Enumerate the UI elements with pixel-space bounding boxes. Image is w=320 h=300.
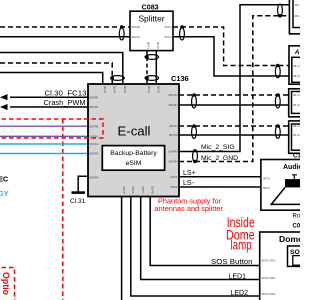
svg-text:08.P8: 08.P8 [150,187,154,195]
svg-text:08.L1: 08.L1 [293,64,300,68]
purple wire 2 [0,135,88,137]
svg-text:08.F4J: 08.F4J [169,124,178,128]
E-call right pin labels [168,93,178,189]
svg-text:Cl.30_FC13: Cl.30_FC13 [45,88,87,97]
twisted-pair symbol at antenna box1 [275,64,280,78]
wire LED1 [141,197,260,281]
svg-text:08.F01: 08.F01 [132,35,141,39]
wire pair 3 solid to box3 [179,134,291,136]
svg-text:C083: C083 [142,3,159,12]
twisted-pair symbol mic pair left [193,150,198,164]
svg-text:lamp: lamp [230,238,251,253]
red note phantom supply [154,199,223,213]
svg-text:08.F4M: 08.F4M [168,150,178,154]
red dashed vertical optional divider [62,119,64,300]
svg-text:08.F4C: 08.F4C [90,142,99,146]
svg-text:08.F2: 08.F2 [157,86,161,93]
E-call left pin labels [90,95,99,179]
antenna box1 [289,46,311,84]
svg-text:08.F4: 08.F4 [165,35,172,39]
wire LS- [179,180,261,187]
wire Mic_2_SIG [179,5,291,152]
wire solid splitter to antenna box1 [173,37,291,76]
svg-text:Splitter: Splitter [138,14,164,24]
svg-text:08.F2: 08.F2 [156,42,160,49]
wire Crash_PWM with arrow [0,98,88,110]
svg-text:Crash_PWM: Crash_PWM [44,98,86,107]
E-call top pin labels [103,86,161,93]
svg-text:08.F4E: 08.F4E [90,95,99,99]
svg-text:C136: C136 [171,74,189,83]
svg-text:08.F4N: 08.F4N [90,176,99,180]
twisted-pair symbol above E-call right pair [145,76,159,81]
wire pair 2 dashed to box2 [179,94,291,96]
svg-text:08.F4K: 08.F4K [169,133,178,137]
wire dashed splitter to antenna box1 [173,27,291,66]
svg-text:Dome: Dome [279,234,300,244]
svg-text:Mic_2_GND: Mic_2_GND [201,155,238,162]
svg-text:08.F4N: 08.F4N [169,160,178,164]
svg-text:08.F4G: 08.F4G [169,93,178,97]
svg-text:antennas and splitter: antennas and splitter [154,206,223,213]
svg-text:Audio: Audio [283,164,300,171]
red dashed optional box around purple pins [0,119,103,138]
wire solid to E-call top pin [0,53,123,85]
svg-text:08.P7: 08.P7 [141,187,145,195]
svg-text:08.F3: 08.F3 [103,86,107,93]
Backup-Battery eSIM [102,146,164,171]
red dashed optional box bottom left [0,268,15,300]
svg-text:eSIM: eSIM [126,160,142,167]
twisted-pair symbol pair3 right [275,124,280,138]
svg-text:C0: C0 [293,224,301,230]
cyan wire 1 [0,143,88,145]
svg-text:08.P3 IND2: 08.P3 IND2 [262,292,276,296]
svg-text:SOS Button: SOS Button [211,257,253,266]
svg-text:08.F5: 08.F5 [123,86,127,93]
wire solid to splitter pin 08.F01 [0,36,130,38]
svg-text:08.L2: 08.L2 [293,74,300,78]
svg-text:LS-: LS- [183,180,195,187]
splitter C083 [130,3,173,51]
dome lamp box [260,232,310,300]
dome pin labels [262,259,276,297]
svg-text:08.P2 IND1: 08.P2 IND1 [262,276,276,280]
svg-text:Backup-Battery: Backup-Battery [110,150,157,157]
twisted-pair symbol below splitter [145,55,159,60]
svg-text:LS+: LS+ [183,170,196,177]
microphone connector box top right [289,0,311,34]
wire pair 3 dashed to box3 [179,125,291,127]
loudspeaker icon [271,175,303,205]
wire Cl.30_FC13 with arrow [0,88,88,100]
ground wire Cl.31 [70,176,88,205]
svg-text:08.L1: 08.L1 [293,124,300,128]
svg-text:08.F4D: 08.F4D [90,152,99,156]
svg-text:LED2: LED2 [230,290,248,297]
svg-text:08.F4B: 08.F4B [90,124,99,128]
svg-text:Mic_2_SIG: Mic_2_SIG [201,144,235,151]
svg-text:08.F02: 08.F02 [132,25,141,29]
wire LS+ [179,170,261,177]
svg-text:GY: GY [0,189,9,198]
cyan wire 2 [0,153,88,155]
svg-text:Cl.31: Cl.31 [70,198,86,205]
wire SOS Button [150,197,260,267]
twisted-pair symbol pair2 right [275,93,280,108]
E-call bottom pin labels [122,187,155,195]
wire pair 2 solid to box2 [179,104,291,106]
antenna box3 [289,121,311,153]
svg-text:08.P1: 08.P1 [263,177,271,181]
svg-text:08.P6: 08.P6 [131,187,135,195]
svg-text:08.L2: 08.L2 [293,133,300,137]
twisted-pair symbol right of splitter [180,25,185,40]
svg-text:08.F4F: 08.F4F [90,105,99,109]
wire dashed splitter bottom to E-call [146,51,148,57]
svg-text:Phantom supply for: Phantom supply for [158,199,222,206]
svg-text:08.F4H: 08.F4H [169,103,178,107]
svg-text:LED1: LED1 [228,274,246,281]
svg-text:08.P5: 08.P5 [122,187,126,195]
svg-text:08.F1: 08.F1 [147,42,151,49]
twisted-pair symbol at splitter left [119,25,124,40]
svg-text:08.F1: 08.F1 [147,86,151,93]
antenna box2 [289,89,311,117]
purple wire 1 [0,125,88,127]
svg-text:EC: EC [0,174,9,183]
svg-text:A: A [294,49,300,56]
twisted-pair symbol mic pair right [278,4,283,18]
svg-text:Optio: Optio [1,272,11,296]
wire dashed to E-call top pin [0,63,112,84]
svg-text:Ro: Ro [293,214,301,220]
svg-text:08.P2: 08.P2 [263,186,271,190]
svg-text:08.L1: 08.L1 [295,3,301,7]
red note inside dome lamp [226,215,255,252]
svg-text:08.P2: 08.P2 [170,185,178,189]
wire solid to E-call top pin [0,73,103,85]
svg-text:08.L2: 08.L2 [295,14,301,18]
wire dashed to splitter pin 08.F02 [0,26,130,28]
SOS switch sub-box [288,246,309,266]
svg-text:08.L1: 08.L1 [293,93,300,97]
wire solid splitter bottom to E-call [155,51,157,84]
twisted-pair symbol pair3 left [192,124,197,138]
audio / loudspeaker box [261,160,309,211]
twisted-pair symbol pair2 left [192,93,197,108]
E-call module C136 [88,74,189,196]
svg-text:E-call: E-call [118,124,151,139]
twisted-pair symbol above E-call [110,76,124,81]
svg-text:08.F4: 08.F4 [165,25,172,29]
wire Mic_2_GND dashed [179,16,291,162]
svg-text:08.P1: 08.P1 [170,175,178,179]
wire E-call bottom plain [121,197,123,300]
svg-text:08.P1 SIG1: 08.P1 SIG1 [262,259,276,263]
svg-text:08.L2: 08.L2 [293,103,300,107]
svg-text:08.F4: 08.F4 [113,86,117,93]
svg-text:SOS: SOS [290,249,300,256]
wire LED2 [131,197,260,298]
